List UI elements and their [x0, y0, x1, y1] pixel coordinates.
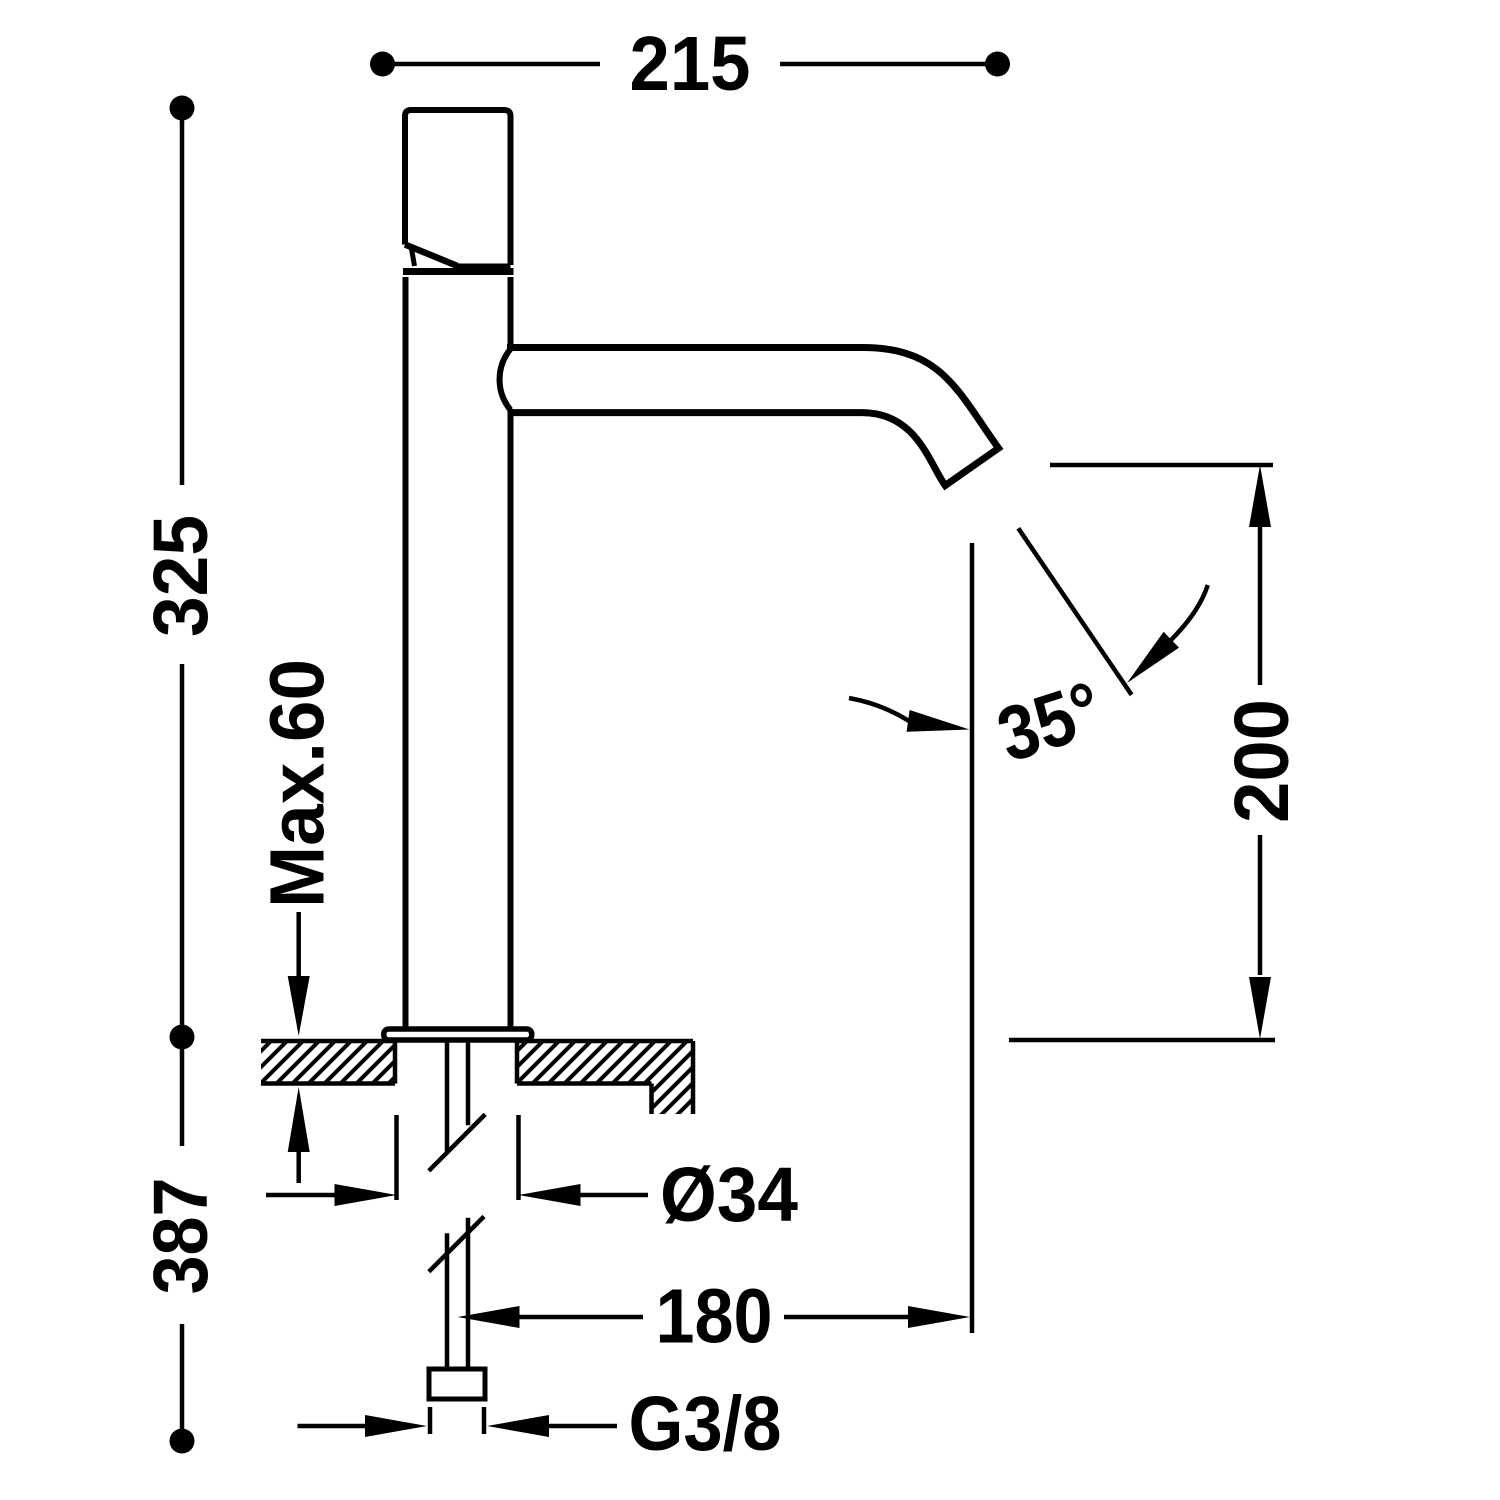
curved arrow to 35 degree line — [1127, 585, 1208, 683]
svg-text:Ø34: Ø34 — [660, 1152, 798, 1238]
handle lever diagonal — [405, 245, 458, 267]
dimension end dot bottom — [170, 1429, 195, 1454]
pipe break line 2 — [429, 1217, 484, 1272]
counter hatch left slab — [261, 1041, 395, 1084]
200 dimension bottom reference line — [1009, 1038, 1275, 1043]
counter hatch right slab with step — [517, 1041, 693, 1114]
diameter 34 dimension — [266, 1115, 648, 1206]
spout left end cap arc — [500, 349, 511, 410]
curved arrow to vertical line — [849, 698, 970, 732]
dimension end dot top — [170, 96, 195, 121]
180 dimension — [458, 1306, 971, 1328]
G3/8 connection nut — [429, 1369, 485, 1399]
Max.60 arrow down — [288, 912, 310, 1036]
dimension 325/387 vertical line — [180, 108, 185, 1441]
handle lever bottom edge — [455, 264, 511, 269]
Max.60 arrow up — [288, 1087, 310, 1183]
handle notch line — [412, 249, 415, 267]
G3/8 dimension — [298, 1407, 618, 1437]
supply pipe left line upper — [429, 1042, 485, 1369]
vertical reference line under spout — [970, 543, 975, 1333]
dimension end dot middle — [170, 1025, 195, 1050]
svg-text:387: 387 — [138, 1178, 224, 1295]
200 dimension line with arrows — [1249, 465, 1271, 1039]
spout outline — [507, 348, 999, 486]
svg-text:180: 180 — [656, 1274, 773, 1360]
35 degree axis line — [1018, 528, 1131, 695]
pipe break line 1 — [429, 1114, 485, 1170]
svg-text:325: 325 — [138, 515, 224, 637]
svg-text:G3/8: G3/8 — [629, 1381, 782, 1467]
faucet base plate — [384, 1029, 532, 1040]
supply pipe lower — [445, 1233, 450, 1369]
svg-text:215: 215 — [630, 21, 751, 107]
handle — [405, 110, 511, 265]
handle base thick bar — [403, 268, 514, 275]
svg-text:200: 200 — [1219, 699, 1305, 823]
dimension 215 end dot left — [370, 52, 395, 77]
dimension 215 line — [383, 62, 998, 67]
faucet body column — [406, 277, 511, 1029]
200 dimension top reference line — [1050, 463, 1273, 468]
dimension 215 end dot right — [985, 52, 1010, 77]
svg-text:Max.60: Max.60 — [255, 659, 341, 908]
